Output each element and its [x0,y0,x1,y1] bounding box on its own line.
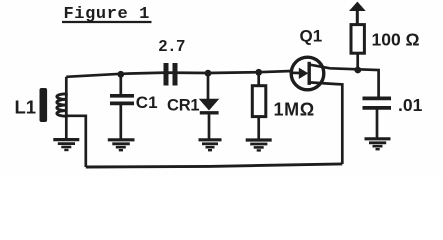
svg-text:100 Ω: 100 Ω [372,30,420,50]
wire: C1 to ground [119,104,122,139]
wire: rail down to C1 [119,74,122,95]
wire: CR1 to ground [208,112,211,139]
wire: left drop from rail to coil top [65,77,68,96]
ground under CR1 [199,140,222,150]
inductor L1 core bar [40,88,48,122]
wire: top rail from coil to Q1 gate [66,71,291,77]
node: junction rail/C1 [117,71,124,78]
resistor 1M [252,86,265,117]
supply arrow [349,2,366,25]
svg-text:L1: L1 [15,97,37,118]
ground under C1 [108,140,135,150]
wire: .01 cap to ground [376,108,379,138]
ground under L1 [53,140,79,150]
node: junction rail/CR1 [205,70,212,77]
wire: 1M resistor to ground [257,117,260,140]
wire: Q1 drain to 100 ohm junction and .01 cap [309,65,378,98]
title Figure 1 [62,5,152,24]
node: junction rail/R 1M [255,69,262,76]
inductor L1 coil [57,94,67,117]
wire: 100 ohm resistor down to drain junction [356,53,359,70]
capacitor C1 [110,96,134,104]
svg-text:2.7: 2.7 [159,38,188,55]
wire: coil bottom to ground [65,116,68,139]
wire: Q1 source to feedback rail [309,82,342,164]
ground under 1M [246,140,272,150]
wire: rail down to CR1 [207,73,210,100]
capacitor 2.7 (series) [166,63,175,86]
svg-text:Q1: Q1 [300,26,323,45]
svg-text:1MΩ: 1MΩ [274,99,315,119]
resistor 100 ohm [351,25,364,54]
wire: coil tap to feedback line [66,116,86,167]
wire: rail down to 1M resistor [257,72,260,86]
node: junction drain/100 ohm [354,67,361,74]
diode CR1 [199,99,220,113]
transistor Q1 [291,57,324,90]
svg-text:C1: C1 [136,93,158,112]
svg-text:CR1: CR1 [167,96,199,114]
svg-text:.01: .01 [398,95,423,115]
ground under .01 [365,139,391,149]
capacitor .01 [363,98,392,108]
wire: bottom feedback rail [86,164,343,167]
